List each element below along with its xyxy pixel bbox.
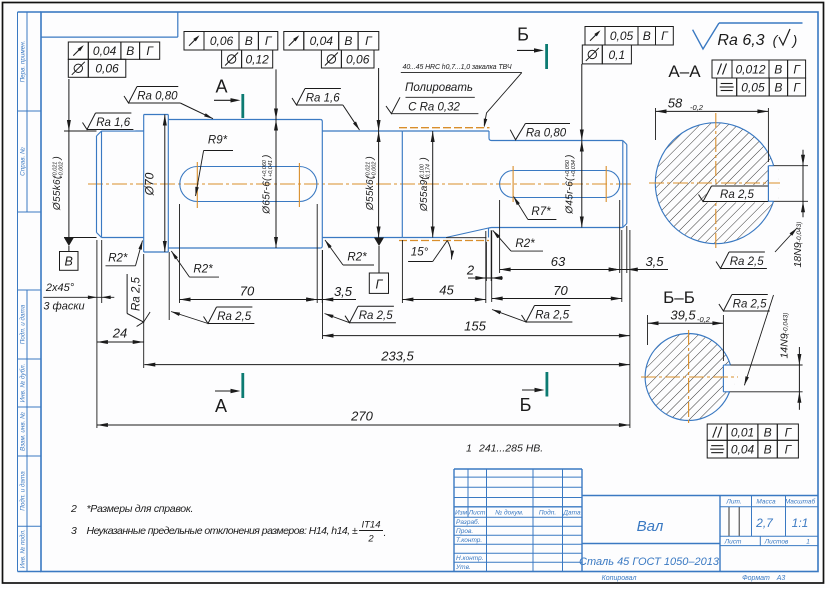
svg-text:): ) — [365, 156, 376, 160]
svg-text:В: В — [344, 34, 352, 48]
svg-text:0,04: 0,04 — [731, 442, 755, 456]
svg-text:Ra 2,5: Ra 2,5 — [720, 189, 754, 201]
svg-text:R2*: R2* — [193, 264, 213, 276]
svg-text:Ra 1,6: Ra 1,6 — [96, 117, 130, 129]
svg-text:45: 45 — [439, 283, 454, 298]
svg-text:Лист: Лист — [724, 539, 742, 546]
svg-text:Подп.: Подп. — [539, 509, 556, 517]
svg-text:Б: Б — [517, 25, 529, 45]
svg-text:Т.контр.: Т.контр. — [456, 537, 482, 544]
svg-text:+0,002: +0,002 — [58, 162, 64, 179]
svg-text:-0,2: -0,2 — [697, 315, 711, 324]
svg-text:-0,2: -0,2 — [690, 103, 704, 112]
svg-text:Изм: Изм — [455, 510, 468, 517]
svg-text:R2*: R2* — [108, 253, 128, 265]
svg-text:Формат: Формат — [742, 575, 770, 582]
svg-text:): ) — [565, 155, 576, 159]
svg-text:Перв. примен.: Перв. примен. — [20, 41, 27, 83]
svg-text:14N9: 14N9 — [779, 333, 791, 358]
svg-text:(-0,043): (-0,043) — [783, 313, 790, 336]
svg-text:): ) — [52, 156, 63, 160]
svg-text:0,01: 0,01 — [731, 425, 754, 439]
svg-text:Н.контр.: Н.контр. — [456, 555, 484, 562]
svg-text:2х45°: 2х45° — [45, 282, 75, 294]
svg-text:Инв. № подл.: Инв. № подл. — [19, 529, 27, 568]
svg-text:Пров.: Пров. — [456, 528, 473, 535]
svg-text:В: В — [774, 80, 782, 94]
svg-text:Б–Б: Б–Б — [663, 288, 695, 307]
svg-text:*Размеры для справок.: *Размеры для справок. — [87, 503, 194, 515]
svg-text:63: 63 — [551, 254, 566, 269]
svg-text:А: А — [215, 396, 227, 416]
svg-text:Ra 6,3: Ra 6,3 — [717, 32, 764, 49]
svg-text:40...45 HRC h0,7...1,0 закалка: 40...45 HRC h0,7...1,0 закалка ТВЧ — [403, 64, 512, 71]
svg-text:Масштаб: Масштаб — [785, 497, 816, 505]
svg-text:Инв. № дубл.: Инв. № дубл. — [19, 364, 27, 403]
svg-text:№ докум.: № докум. — [495, 509, 524, 517]
svg-text:Ra 2,5: Ra 2,5 — [217, 311, 251, 323]
svg-text:R9*: R9* — [208, 135, 228, 147]
svg-text:Вал: Вал — [637, 518, 664, 535]
svg-text:В: В — [643, 29, 651, 43]
svg-text:1: 1 — [806, 539, 810, 546]
svg-text:3 фаски: 3 фаски — [43, 301, 84, 313]
svg-text:18N9: 18N9 — [792, 242, 804, 267]
svg-text:+0,034: +0,034 — [571, 160, 577, 177]
svg-text:Полировать: Полировать — [405, 82, 473, 94]
svg-text:Ø55k6(: Ø55k6( — [52, 174, 63, 211]
svg-text:0,05: 0,05 — [741, 80, 765, 94]
svg-text:В: В — [126, 44, 134, 58]
svg-text:В: В — [764, 442, 772, 456]
svg-text:Ø70: Ø70 — [143, 172, 157, 196]
svg-text:1:1: 1:1 — [792, 516, 809, 530]
svg-text:В: В — [245, 34, 253, 48]
svg-text:Подп. и дата: Подп. и дата — [19, 304, 27, 344]
svg-text:Ø55k6(: Ø55k6( — [365, 174, 376, 211]
svg-text:Утв.: Утв. — [455, 564, 471, 571]
svg-text:270: 270 — [350, 409, 373, 424]
svg-text:Ø45r-6(: Ø45r-6( — [565, 176, 576, 215]
svg-text:В: В — [774, 62, 782, 76]
svg-text:70: 70 — [240, 284, 255, 299]
svg-text:Масса: Масса — [756, 498, 776, 505]
svg-text:.: . — [384, 527, 387, 539]
svg-text:0,04: 0,04 — [310, 34, 334, 48]
svg-text:0,012: 0,012 — [735, 62, 765, 76]
svg-text:3: 3 — [71, 525, 77, 537]
svg-text:2: 2 — [70, 503, 77, 515]
svg-text:Ra 2,5: Ra 2,5 — [359, 310, 393, 322]
svg-text:А: А — [215, 77, 227, 97]
svg-text:3,5: 3,5 — [334, 284, 353, 299]
svg-text:+0,002: +0,002 — [371, 162, 377, 179]
svg-text:2: 2 — [466, 263, 475, 278]
svg-text:155: 155 — [464, 319, 486, 334]
svg-text:2,7: 2,7 — [755, 516, 774, 530]
svg-text:R7*: R7* — [531, 206, 551, 218]
svg-text:3,5: 3,5 — [645, 254, 664, 269]
svg-text:Копировал: Копировал — [602, 575, 637, 582]
svg-text:233,5: 233,5 — [380, 349, 414, 364]
svg-text:Ra 2,5: Ra 2,5 — [733, 299, 767, 311]
svg-text:А–А: А–А — [668, 62, 701, 81]
svg-text:Лист: Лист — [468, 510, 486, 517]
svg-text:Листов: Листов — [764, 539, 789, 546]
svg-text:0,06: 0,06 — [346, 52, 370, 66]
svg-text:Разраб.: Разраб. — [456, 518, 480, 526]
svg-text:Лит.: Лит. — [725, 498, 741, 505]
svg-text:Подп. и дата: Подп. и дата — [19, 471, 27, 511]
svg-text:58: 58 — [668, 96, 683, 111]
svg-text:+0,041: +0,041 — [268, 160, 274, 177]
svg-text:С Ra 0,32: С Ra 0,32 — [408, 102, 460, 114]
svg-text:0,06: 0,06 — [210, 34, 234, 48]
svg-text:(-0,043): (-0,043) — [796, 222, 803, 245]
svg-text:Ra 2,5: Ra 2,5 — [730, 256, 764, 268]
svg-text:0,04: 0,04 — [93, 44, 117, 58]
svg-text:0,1: 0,1 — [609, 48, 626, 62]
svg-text:70: 70 — [553, 283, 568, 298]
svg-text:0,05: 0,05 — [610, 29, 634, 43]
svg-text:В: В — [65, 255, 73, 269]
svg-text:R2*: R2* — [515, 238, 535, 250]
svg-text:Ra 2,5: Ra 2,5 — [535, 310, 569, 322]
svg-text:15°: 15° — [411, 247, 429, 259]
svg-text:): ) — [419, 157, 430, 161]
svg-text:Справ. №: Справ. № — [20, 147, 27, 176]
svg-text:39,5: 39,5 — [670, 308, 696, 323]
svg-text:): ) — [262, 155, 273, 159]
svg-text:Ra 1,6: Ra 1,6 — [306, 93, 340, 105]
svg-text:0,12: 0,12 — [245, 52, 269, 66]
svg-text:-0,174: -0,174 — [425, 164, 431, 180]
svg-text:1: 1 — [466, 443, 472, 455]
svg-text:241...285 НВ.: 241...285 НВ. — [478, 443, 543, 455]
svg-text:24: 24 — [112, 326, 127, 341]
svg-text:Сталь 45 ГОСТ 1050–2013: Сталь 45 ГОСТ 1050–2013 — [579, 556, 720, 568]
svg-text:Ra 2,5: Ra 2,5 — [131, 276, 143, 310]
svg-text:Ra 0,80: Ra 0,80 — [137, 91, 178, 103]
svg-text:R2*: R2* — [347, 252, 367, 264]
svg-text:Г: Г — [375, 277, 383, 291]
svg-text:Неуказанные предельные отклоне: Неуказанные предельные отклонения размер… — [87, 525, 359, 537]
svg-text:Ø65r-6(: Ø65r-6( — [262, 176, 273, 215]
svg-text:Ra 0,80: Ra 0,80 — [526, 128, 567, 140]
svg-text:А3: А3 — [776, 575, 786, 582]
svg-text:IT14: IT14 — [361, 520, 380, 531]
svg-text:Дата: Дата — [562, 510, 581, 517]
svg-text:Б: Б — [520, 395, 532, 415]
svg-text:0,06: 0,06 — [95, 62, 119, 76]
svg-text:2: 2 — [367, 534, 374, 545]
svg-text:В: В — [764, 425, 772, 439]
svg-text:Взам. инв. №: Взам. инв. № — [20, 412, 27, 451]
